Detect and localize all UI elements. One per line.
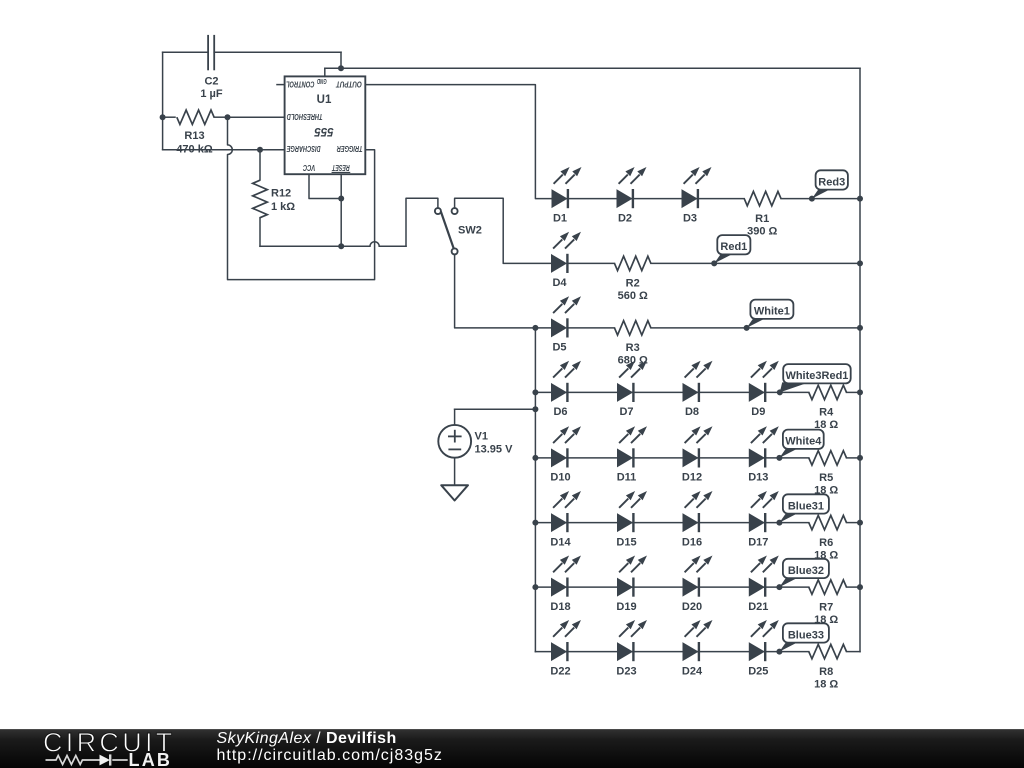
svg-text:R12: R12 [271,188,291,200]
svg-text:TRIGGER: TRIGGER [337,144,363,153]
svg-text:VCC: VCC [303,163,315,172]
node Blue32 [776,584,782,590]
node left rail row 5 [532,455,538,461]
svg-text:D13: D13 [748,472,768,484]
node reset bottom [338,243,344,249]
node right rail row 6 [857,520,863,526]
LED D19 [618,556,648,597]
tag White4 [779,448,799,458]
LED D1 [552,167,582,208]
resistor R12 [253,150,268,247]
svg-text:R7: R7 [819,601,833,613]
node R13 left [160,114,166,120]
svg-text:Blue33: Blue33 [788,629,824,641]
svg-text:1 kΩ: 1 kΩ [271,201,295,213]
node R13 right / threshold [225,114,231,120]
node Red1 [711,260,717,266]
LED D3 [682,167,712,208]
svg-text:560 Ω: 560 Ω [618,290,648,302]
wire reset to SW2 with hop [260,242,406,247]
LED D21 [749,556,779,597]
switch SW2 [435,208,458,254]
wire row2 right [651,262,860,264]
tag White1 [747,318,767,328]
svg-text:18 Ω: 18 Ω [814,678,838,690]
svg-text:GND: GND [317,77,327,84]
svg-text:555: 555 [314,125,334,137]
wire row6 right [847,522,861,524]
node left rail row 6 [532,520,538,526]
tag Blue31 [779,513,799,523]
svg-text:D10: D10 [550,472,570,484]
svg-text:D17: D17 [748,536,768,548]
svg-text:R3: R3 [626,342,640,354]
svg-text:U1: U1 [317,94,332,106]
svg-text:R5: R5 [819,472,833,484]
wire row1 [552,198,744,200]
resistor R7 [809,580,847,594]
resistor R4 [809,385,847,399]
LED D15 [618,491,648,532]
svg-text:D4: D4 [552,277,567,289]
resistor R13 [163,110,228,124]
node Red3 [809,196,815,202]
resistor R5 [809,451,847,465]
node V1 rail [532,406,538,412]
node White1 [744,325,750,331]
svg-text:OUTPUT: OUTPUT [335,80,362,89]
pin VCC stub [309,174,341,198]
LED D13 [749,426,779,467]
svg-text:R8: R8 [819,666,833,678]
svg-text:D18: D18 [550,601,570,613]
LED D24 [683,620,713,661]
pin GND stub [324,68,326,76]
node discharge / R12 [257,147,263,153]
capacitor C2 [163,36,341,70]
wire row5 [535,457,808,459]
LED D11 [618,426,648,467]
node Blue31 [776,520,782,526]
LED D8 [683,361,713,402]
svg-text:LAB: LAB [129,750,173,768]
wire row1 right [781,198,860,200]
LED D12 [683,426,713,467]
svg-text:D24: D24 [682,665,703,677]
wire right rail [859,68,861,651]
LED D22 [552,620,582,661]
node White3Red1 [777,389,783,395]
node White4 [776,455,782,461]
svg-text:D23: D23 [616,665,636,677]
wire left rail [534,328,536,652]
svg-text:White3Red1: White3Red1 [785,370,848,382]
LED D9 [749,361,779,402]
LED D5 [552,296,582,337]
wire row7 right [847,586,861,588]
svg-text:D8: D8 [685,406,699,418]
wire row5 right [847,457,861,459]
LED D20 [683,556,713,597]
svg-text:CONTROL: CONTROL [286,80,315,89]
footer title text [217,730,443,765]
wire SW2 right throw to D4 row [455,198,552,263]
LED D4 [552,232,582,273]
svg-text:RESET: RESET [331,163,349,172]
svg-text:D2: D2 [618,212,632,224]
wire up to SW2 left [406,198,438,246]
pin RESET stub [340,174,342,246]
wire row7 [535,586,808,588]
voltage source V1 [438,409,471,487]
wire row8 right [847,651,861,653]
node right rail row 7 [857,584,863,590]
resistor R3 [615,321,651,335]
svg-text:R6: R6 [819,537,833,549]
svg-text:D25: D25 [748,665,768,677]
wire row3 a [567,327,614,329]
svg-text:R2: R2 [626,278,640,290]
node right rail row 4 [857,389,863,395]
svg-text:THRESHOLD: THRESHOLD [286,112,322,121]
ground [441,485,468,500]
wire V1 to left rail [455,408,536,410]
svg-text:D1: D1 [553,212,567,224]
wire SW2 common to D5 row [455,255,552,328]
node left rail D5 [532,325,538,331]
svg-text:Blue31: Blue31 [788,500,824,512]
LED D23 [618,620,648,661]
svg-text:Red3: Red3 [818,176,845,188]
wire left vertical from C2 to discharge line [162,52,164,149]
LED D10 [552,426,582,467]
svg-text:D12: D12 [682,472,702,484]
svg-text:D19: D19 [616,601,636,613]
resistor R2 [615,256,651,270]
node gnd / C2 [338,65,344,71]
wire row8 [535,651,808,653]
node right rail row 3 [857,325,863,331]
wire row4 [535,391,808,393]
svg-text:D3: D3 [683,212,697,224]
LED D7 [618,361,648,402]
node left rail row 7 [532,584,538,590]
resistor R1 [744,191,781,205]
wire row6 [535,522,808,524]
svg-text:R1: R1 [755,213,769,225]
tag Blue33 [779,642,799,652]
svg-text:1 µF: 1 µF [200,88,223,100]
wire row4 right [847,391,861,393]
svg-text:Blue32: Blue32 [788,565,824,577]
svg-text:D22: D22 [550,665,570,677]
svg-text:D21: D21 [748,601,768,613]
svg-text:390 Ω: 390 Ω [747,225,777,237]
svg-text:C2: C2 [204,75,218,87]
svg-text:D5: D5 [552,342,566,354]
LED D6 [552,361,582,402]
svg-text:D6: D6 [553,406,567,418]
tag Blue32 [779,577,799,587]
node right rail row 1 [857,196,863,202]
svg-text:D14: D14 [550,536,571,548]
pin CONTROL stub [277,84,285,86]
svg-text:DISCHARGE: DISCHARGE [286,144,320,153]
tag White3Red1 [780,382,809,392]
node right rail row 2 [857,260,863,266]
node Blue33 [776,649,782,655]
svg-text:White4: White4 [785,436,822,448]
tag Red3 [812,189,832,199]
wire output [365,85,552,199]
node left rail row 4 [532,389,538,395]
wire discharge [163,149,285,151]
svg-text:White1: White1 [754,306,790,318]
node vcc-reset [338,196,344,202]
CircuitLab logo [0,729,210,768]
svg-text:R13: R13 [184,130,204,142]
svg-text:13.95 V: 13.95 V [475,443,514,455]
LED D17 [749,491,779,532]
wire row2 a [567,262,614,264]
svg-text:D7: D7 [619,406,633,418]
LED D14 [552,491,582,532]
svg-text:D15: D15 [616,536,636,548]
wire gnd top rail [325,67,860,69]
resistor R8 [809,644,847,658]
LED D18 [552,556,582,597]
wire threshold [228,116,285,118]
LED D25 [749,620,779,661]
LED D2 [617,167,647,208]
op-amp U1 555 body [285,76,366,174]
node right rail row 5 [857,455,863,461]
svg-text:D9: D9 [751,406,765,418]
footer bar [0,729,1024,768]
svg-text:D16: D16 [682,536,702,548]
svg-text:Red1: Red1 [720,241,747,253]
wire trigger loop [228,117,375,279]
svg-text:D11: D11 [617,472,637,484]
svg-text:SW2: SW2 [458,225,482,237]
wire row3 right [651,327,860,329]
svg-text:D20: D20 [682,601,702,613]
LED D16 [683,491,713,532]
svg-text:R4: R4 [819,407,834,419]
resistor R6 [809,515,847,529]
svg-text:V1: V1 [475,431,488,443]
tag Red1 [714,253,734,263]
